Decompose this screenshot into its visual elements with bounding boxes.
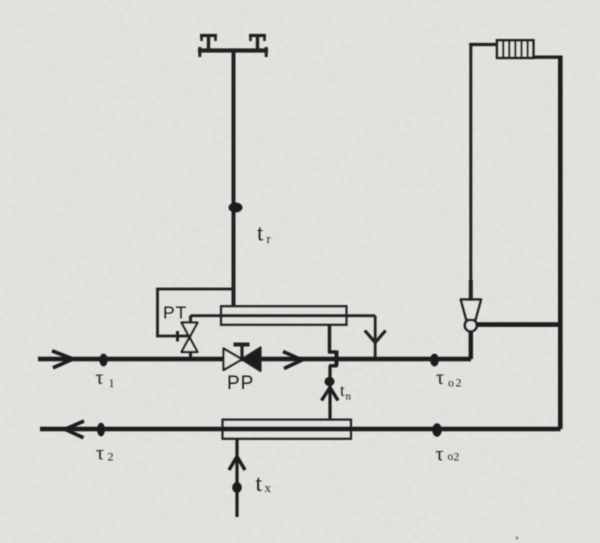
svg-text:PT: PT [163, 303, 187, 323]
down arrow [365, 331, 386, 343]
heating circuit left riser [469, 43, 472, 281]
node dot tau_o2 lower [432, 423, 442, 437]
flow regulator valve PP [224, 348, 261, 372]
cold water inlet t_x [235, 439, 238, 517]
svg-text:t: t [340, 381, 345, 400]
t_n branch jog upper [328, 350, 337, 353]
elevator nozzle circle [465, 319, 477, 331]
heating circuit top-left line [469, 43, 497, 46]
svg-text:τ: τ [96, 443, 104, 465]
stage II heat exchanger [221, 306, 347, 325]
svg-text:τ: τ [96, 367, 104, 389]
left tap T [200, 36, 217, 51]
heating circuit top-right line [533, 56, 562, 59]
t_n branch pipe [328, 366, 331, 420]
radiator [497, 40, 533, 58]
node dot tau2 [97, 423, 105, 437]
t_n branch cross pipe [335, 351, 339, 367]
svg-text:τ: τ [436, 367, 444, 389]
heating circuit bottom line [477, 322, 562, 327]
elevator funnel [461, 300, 481, 321]
svg-text:PP: PP [227, 373, 254, 394]
impulse line tick [176, 331, 179, 342]
svg-text:t: t [256, 471, 263, 497]
node dot tau_o2 upper [430, 354, 439, 367]
t_n sensor dot [325, 377, 335, 386]
supply riser to elevator [469, 330, 473, 360]
heating circuit right riser [558, 56, 563, 430]
temperature regulator valve PT [182, 323, 198, 353]
svg-text:2: 2 [108, 450, 114, 464]
svg-text:1: 1 [109, 376, 115, 390]
heater outlet drop from stage II [328, 325, 331, 353]
heater through line (stage II) [191, 314, 376, 317]
left riser lower stub [469, 280, 473, 301]
right tap T [249, 36, 266, 51]
up arrow t_n [322, 388, 339, 401]
flow arrow mid [283, 352, 302, 369]
flow arrow right [52, 351, 73, 368]
scan speck [516, 537, 519, 540]
drop line to supply pipe [374, 316, 377, 359]
svg-text:t: t [257, 221, 264, 246]
supply pipe tau1 [38, 357, 471, 362]
svg-text:2: 2 [456, 376, 462, 390]
return pipe tau2 [40, 427, 561, 432]
flow arrow left [65, 421, 84, 438]
node dot t_x [232, 482, 242, 493]
up arrow t_x [229, 457, 245, 471]
valve bottom connector [189, 352, 192, 359]
PP valve stem [240, 345, 243, 359]
valve top connector [189, 316, 192, 323]
svg-text:2: 2 [454, 452, 460, 464]
DHW riser pipe [232, 51, 236, 308]
node dot t_r [229, 203, 243, 213]
water draw-off tap bar [198, 47, 268, 57]
t_n branch jog lower [329, 364, 338, 367]
node dot tau1 [99, 354, 107, 367]
svg-text:x: x [265, 480, 272, 495]
PT impulse line [158, 289, 234, 336]
svg-text:n: n [346, 391, 352, 403]
stage I heat exchanger [223, 420, 352, 439]
svg-text:o: o [448, 376, 454, 390]
svg-text:τ: τ [436, 444, 444, 466]
